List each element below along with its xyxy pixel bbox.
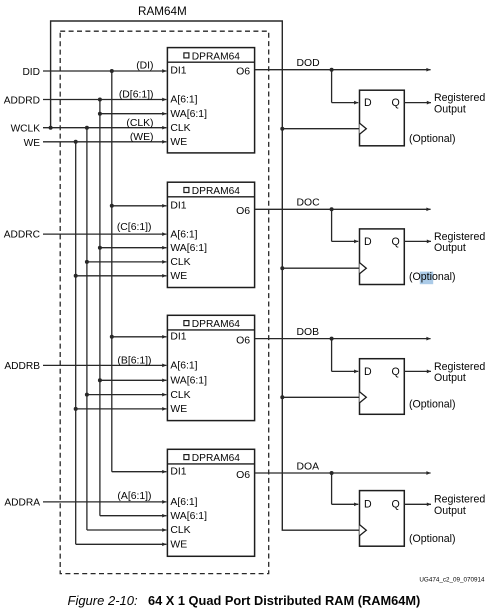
svg-text:(Optional): (Optional) — [409, 533, 456, 545]
svg-text:(C[6:1]): (C[6:1]) — [117, 222, 152, 233]
label DOC — [297, 198, 321, 209]
wire branch DOD down to flip-flop D input — [332, 70, 359, 103]
label (Optional) with selection highlight (FFC) — [409, 271, 456, 284]
svg-text:DOA: DOA — [297, 461, 320, 472]
label ADDRA — [4, 498, 40, 509]
svg-text:A[6:1]: A[6:1] — [170, 497, 197, 508]
svg-text:A[6:1]: A[6:1] — [170, 95, 197, 106]
junction WE to WE bus — [74, 140, 78, 144]
svg-text:DI1: DI1 — [170, 332, 186, 343]
svg-text:Output: Output — [434, 242, 466, 254]
junction DOC to register D branch — [330, 207, 334, 211]
svg-text:O6: O6 — [236, 205, 250, 217]
junction DOB to register D branch — [330, 337, 334, 341]
label (WE) net name — [130, 132, 154, 143]
svg-text:(Optional): (Optional) — [409, 271, 456, 283]
wire DOD output line from O6 — [255, 69, 431, 71]
wire FFA Q output to registered output — [404, 503, 431, 505]
svg-text:D: D — [364, 366, 372, 378]
dashed boundary box of RAM64M — [60, 31, 269, 573]
svg-text:CLK: CLK — [170, 123, 190, 134]
svg-text:ADDRC: ADDRC — [4, 230, 40, 241]
wire DOB output line from O6 — [255, 338, 431, 340]
svg-text:Output: Output — [434, 505, 466, 517]
svg-text:DPRAM64: DPRAM64 — [192, 186, 240, 197]
svg-text:DI1: DI1 — [170, 466, 186, 477]
svg-text:Q: Q — [392, 97, 400, 109]
wire DI branch to DPRAM64 port B — [112, 336, 167, 338]
flip-flop FFB (optional output register, D/Q) — [360, 359, 405, 415]
svg-text:ADDRD: ADDRD — [4, 96, 40, 107]
label (B[6:1]) net name — [117, 356, 151, 367]
label (D[6:1]) net name — [119, 89, 154, 100]
svg-text:DI1: DI1 — [170, 66, 186, 77]
flip-flop FFA (optional output register, D/Q) — [360, 491, 405, 547]
svg-text:DOC: DOC — [297, 198, 321, 209]
wire WA bus (ADDRD to all WA[6:1] pins) — [99, 100, 101, 516]
wire DOC output line from O6 — [255, 208, 431, 210]
svg-text:UG474_c2_09_070914: UG474_c2_09_070914 — [419, 577, 485, 584]
junction DID to DI bus — [110, 69, 114, 73]
label (Optional) (FFD) — [409, 133, 456, 145]
wire DI branch to DPRAM64 port C — [112, 205, 167, 207]
wire DI bus corner into port A DI1 — [112, 471, 167, 473]
label (A[6:1]) net name — [117, 491, 151, 502]
junction CLK bus at port B — [85, 393, 89, 397]
junction WA bus at port D — [98, 112, 102, 116]
wire WCLK branch to flip-flop 3 clock — [282, 396, 359, 398]
svg-text:D: D — [364, 97, 372, 109]
wire CLK branch to DPRAM64 port C — [87, 261, 166, 263]
svg-text:Registered: Registered — [434, 231, 485, 243]
svg-text:(Optional): (Optional) — [409, 399, 456, 411]
svg-text:WCLK: WCLK — [11, 124, 41, 135]
svg-text:A[6:1]: A[6:1] — [170, 229, 197, 240]
svg-text:(WE): (WE) — [130, 132, 154, 143]
wire WE branch to DPRAM64 port B — [76, 408, 167, 410]
svg-text:Output: Output — [434, 372, 466, 384]
caption Figure 2-10: 64 X 1 Quad Port Distributed RAM (RAM64M) — [68, 593, 421, 608]
wire WA branch to DPRAM64 port C — [100, 247, 166, 249]
svg-text:WA[6:1]: WA[6:1] — [170, 243, 207, 254]
label WE — [24, 138, 41, 149]
junction WCLK to CLK bus — [85, 126, 89, 130]
label DID — [22, 67, 40, 78]
wire WA bus corner into port A WA[6:1] — [100, 515, 166, 517]
junction WA bus at port C — [98, 246, 102, 250]
wire DOA output line from O6 — [255, 472, 431, 474]
label (Optional) (FFB) — [409, 399, 456, 411]
svg-text:CLK: CLK — [170, 257, 190, 268]
svg-text:(D[6:1]): (D[6:1]) — [119, 89, 154, 100]
svg-text:WE: WE — [170, 137, 187, 148]
wire FFC Q output to registered output — [404, 240, 431, 242]
label ADDRC — [4, 230, 40, 241]
wire CLK branch to DPRAM64 port B — [87, 394, 166, 396]
label ADDRB — [4, 361, 40, 372]
wire branch DOB down to flip-flop D input — [332, 339, 359, 372]
RAM block DPRAM64 port A (U4) with pins DI1, A[6:1], WA[6:1], CLK, WE, O6 — [167, 449, 254, 556]
svg-text:DPRAM64: DPRAM64 — [192, 453, 240, 464]
wire CLK bus (WCLK to all CLK pins) — [86, 128, 88, 530]
wire WE bus (WE to all WE pins) — [75, 142, 77, 545]
svg-text:(A[6:1]): (A[6:1]) — [117, 491, 151, 502]
junction WA bus at port B — [98, 378, 102, 382]
svg-text:WE: WE — [170, 271, 187, 282]
junction ADDRD to WA bus — [98, 98, 102, 102]
wire DID input line — [43, 70, 166, 72]
svg-text:CLK: CLK — [170, 390, 190, 401]
wire ADDRD input line — [43, 99, 166, 101]
wire WA branch to DPRAM64 port B — [100, 379, 166, 381]
wire branch DOC down to flip-flop D input — [332, 209, 359, 241]
wire WCLK branch to flip-flop 2 clock — [282, 267, 359, 269]
svg-text:WA[6:1]: WA[6:1] — [170, 376, 207, 387]
svg-text:O6: O6 — [236, 66, 250, 78]
label DOA — [297, 461, 320, 472]
wire WE branch to DPRAM64 port C — [76, 275, 167, 277]
junction DOD to register D branch — [330, 68, 334, 72]
label (Optional) (FFA) — [409, 533, 456, 545]
junction WCLK drop at flip-flop 2 clock branch — [280, 266, 284, 270]
junction DI bus at port C — [110, 204, 114, 208]
wire ADDRC input line — [43, 233, 166, 235]
svg-text:WA[6:1]: WA[6:1] — [170, 511, 207, 522]
svg-text:DI1: DI1 — [170, 201, 186, 212]
svg-text:ADDRA: ADDRA — [4, 498, 40, 509]
svg-text:Q: Q — [392, 236, 400, 248]
svg-text:WA[6:1]: WA[6:1] — [170, 109, 207, 120]
svg-text:Figure 2-10:: Figure 2-10: — [68, 593, 138, 608]
svg-text:DID: DID — [22, 67, 40, 78]
junction CLK bus at port C — [85, 260, 89, 264]
svg-text:DPRAM64: DPRAM64 — [192, 52, 240, 63]
wire WCLK register-clock route (left riser, top run, right drop) — [51, 21, 360, 530]
svg-text:CLK: CLK — [170, 525, 190, 536]
junction WCLK drop at flip-flop 1 clock branch — [280, 127, 284, 131]
svg-text:Registered: Registered — [434, 92, 485, 104]
svg-text:(B[6:1]): (B[6:1]) — [117, 356, 151, 367]
label Registered Output (FFB) — [434, 361, 485, 384]
label figure tag UG474_c2_09_070914 — [419, 577, 485, 584]
svg-text:DOD: DOD — [297, 58, 320, 69]
label ADDRD — [4, 96, 40, 107]
svg-text:O6: O6 — [236, 469, 250, 481]
label Registered Output (FFA) — [434, 494, 485, 517]
junction DOA to register D branch — [330, 471, 334, 475]
svg-text:(Optional): (Optional) — [409, 133, 456, 145]
wire WE bus corner into port A WE — [76, 543, 167, 545]
svg-text:Q: Q — [392, 366, 400, 378]
RAM block DPRAM64 port D (U1) with pins DI1, A[6:1], WA[6:1], CLK, WE, O6 — [167, 48, 254, 153]
svg-text:Registered: Registered — [434, 494, 485, 506]
svg-text:WE: WE — [170, 540, 187, 551]
svg-text:A[6:1]: A[6:1] — [170, 361, 197, 372]
junction WE bus at port B — [74, 407, 78, 411]
svg-text:D: D — [364, 236, 372, 248]
wire ADDRB input line — [43, 364, 166, 366]
wire DI bus (DID to all DI1 pins) — [111, 71, 113, 472]
svg-text:D: D — [364, 499, 372, 511]
RAM block DPRAM64 port B (U3) with pins DI1, A[6:1], WA[6:1], CLK, WE, O6 — [167, 315, 254, 420]
label (CLK) net name — [126, 118, 153, 129]
svg-text:Registered: Registered — [434, 361, 485, 373]
svg-text:Q: Q — [392, 499, 400, 511]
junction WCLK drop at flip-flop 3 clock branch — [280, 395, 284, 399]
wire CLK bus corner into port A CLK — [87, 529, 166, 531]
svg-text:Output: Output — [434, 103, 466, 115]
label DOD — [297, 58, 320, 69]
flip-flop FFC (optional output register, D/Q) — [360, 229, 405, 285]
svg-text:(DI): (DI) — [136, 61, 153, 72]
label (C[6:1]) net name — [117, 222, 152, 233]
wire WCLK input line — [43, 127, 166, 129]
label Registered Output (FFC) — [434, 231, 485, 254]
wire branch DOA down to flip-flop D input — [332, 473, 359, 504]
svg-text:RAM64M: RAM64M — [138, 5, 187, 18]
junction DI bus at port B — [110, 335, 114, 339]
svg-text:DPRAM64: DPRAM64 — [192, 319, 240, 330]
wire WCLK branch to flip-flop 1 clock — [282, 128, 359, 130]
label (DI) net name — [136, 61, 153, 72]
svg-text:WE: WE — [170, 404, 187, 415]
wire FFB Q output to registered output — [404, 370, 431, 372]
wire ADDRA input line — [43, 501, 166, 503]
svg-text:DOB: DOB — [297, 327, 320, 338]
RAM block DPRAM64 port C (U2) with pins DI1, A[6:1], WA[6:1], CLK, WE, O6 — [167, 182, 254, 287]
junction WCLK riser on WCLK input line — [49, 126, 53, 130]
wire WE input line — [43, 141, 166, 143]
svg-text:WE: WE — [24, 138, 41, 149]
svg-text:ADDRB: ADDRB — [4, 361, 40, 372]
wire FFD Q output to registered output — [404, 102, 431, 104]
svg-text:(CLK): (CLK) — [126, 118, 153, 129]
junction WE bus at port C — [74, 274, 78, 278]
svg-text:O6: O6 — [236, 335, 250, 347]
label WCLK — [11, 124, 41, 135]
label DOB — [297, 327, 320, 338]
label Registered Output (FFD) — [434, 92, 485, 115]
label RAM64M (module title) — [138, 5, 187, 18]
flip-flop FFD (optional output register, D/Q) — [360, 90, 405, 146]
wire WA branch to DPRAM64 port D — [100, 113, 166, 115]
svg-text:64 X 1 Quad Port Distributed R: 64 X 1 Quad Port Distributed RAM (RAM64M… — [148, 593, 420, 608]
